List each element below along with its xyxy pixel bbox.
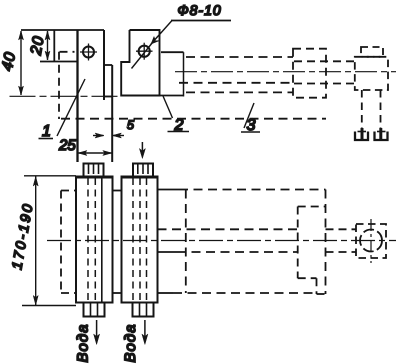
head vertical center line <box>370 219 372 263</box>
extension line bottom <box>22 305 76 307</box>
dimension 170-190 <box>33 177 38 306</box>
center line A (top view left) <box>10 95 121 97</box>
svg-text:5: 5 <box>127 118 134 132</box>
dimension 40 <box>19 31 24 95</box>
bar 1 hidden channels <box>88 178 95 302</box>
hole circle 1 with center cross <box>80 44 97 61</box>
bar 1 (electrode holder) <box>76 177 113 303</box>
label F8-10 <box>132 2 232 69</box>
bar 2 (electrode holder) <box>122 177 158 303</box>
svg-text:170-190: 170-190 <box>8 201 36 271</box>
bar 2 hidden channels <box>133 178 147 302</box>
head main (top view) <box>355 57 388 90</box>
connector rows box to head (top) <box>294 61 354 83</box>
center line B (top view arm) <box>175 71 396 73</box>
inner dashed box (bottom view) <box>298 207 330 295</box>
arm outline (bottom view) solid starts <box>158 190 180 294</box>
svg-text:1: 1 <box>42 123 51 140</box>
cap 2 <box>133 164 153 177</box>
svg-text:Вода: Вода <box>122 324 139 363</box>
leader label 1 <box>39 79 86 139</box>
head feet <box>355 128 388 140</box>
leader label 3 <box>241 103 260 132</box>
svg-text:40: 40 <box>0 50 19 72</box>
head cap (top view) <box>361 47 383 57</box>
block 1 outline <box>40 30 112 162</box>
svg-text:Вода: Вода <box>75 324 92 363</box>
extension line top <box>24 175 76 177</box>
dashed plate outline left of bars <box>61 191 121 294</box>
water arrow 2 <box>142 320 148 345</box>
long hidden dashed line under blocks <box>61 118 326 120</box>
svg-text:Ф8-10: Ф8-10 <box>178 2 222 18</box>
svg-text:25: 25 <box>58 137 76 154</box>
dimension 5 <box>93 133 124 138</box>
svg-text:3: 3 <box>247 117 256 134</box>
water arrow 1 <box>94 320 100 345</box>
leader label 2 <box>163 96 189 132</box>
head hole circle <box>360 230 382 252</box>
foot 1 <box>84 303 105 317</box>
head legs dashed <box>362 90 381 131</box>
dimension 25 <box>78 151 112 156</box>
block 2 outline <box>121 30 183 96</box>
dashed box arm right end (top view) <box>293 49 326 98</box>
foot 2 <box>133 303 154 317</box>
svg-text:20: 20 <box>28 34 48 57</box>
arm end cap vertical <box>183 52 185 96</box>
cap 1 <box>84 164 104 177</box>
arm outline (bottom view) dashed <box>158 190 326 295</box>
hidden edge dashes block1 <box>59 52 75 119</box>
arm dashed tube rows <box>179 57 293 92</box>
hole circle 2 with center cross <box>136 43 153 60</box>
insertion arrow above bar2 <box>139 142 145 159</box>
head box (bottom view) <box>356 224 386 258</box>
top edge line block1 + 40dim extension <box>21 29 104 31</box>
dimension 20 <box>45 31 50 60</box>
connector rows to head (bottom) <box>326 229 357 252</box>
arm solid connection top <box>161 51 184 53</box>
center line C (bottom view) <box>47 240 396 242</box>
